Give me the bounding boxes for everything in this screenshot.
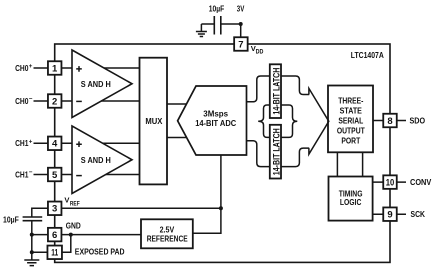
svg-text:CH0: CH0	[15, 63, 29, 73]
svg-text:3: 3	[52, 204, 57, 215]
svg-text:SDO: SDO	[410, 115, 426, 125]
svg-text:1: 1	[52, 63, 58, 74]
svg-text:STATE: STATE	[340, 106, 363, 116]
svg-text:8: 8	[387, 116, 392, 127]
svg-text:EXPOSED PAD: EXPOSED PAD	[75, 247, 125, 257]
svg-text:S AND H: S AND H	[81, 79, 111, 89]
svg-text:+: +	[29, 138, 33, 145]
svg-text:2: 2	[52, 96, 57, 107]
svg-text:CONV: CONV	[410, 177, 432, 187]
svg-text:10: 10	[386, 178, 395, 189]
svg-text:DD: DD	[256, 50, 264, 56]
svg-text:+: +	[29, 63, 33, 70]
svg-text:9: 9	[387, 210, 392, 221]
svg-text:CH1: CH1	[15, 169, 29, 179]
svg-text:6: 6	[52, 230, 57, 241]
svg-text:THREE-: THREE-	[338, 96, 363, 106]
svg-text:GND: GND	[66, 220, 81, 230]
svg-text:PORT: PORT	[341, 136, 361, 146]
svg-text:11: 11	[51, 248, 58, 259]
svg-text:CH1: CH1	[15, 138, 29, 148]
svg-text:REF: REF	[70, 201, 80, 207]
svg-text:10µF: 10µF	[209, 3, 225, 13]
svg-text:CH0: CH0	[15, 96, 29, 106]
svg-text:LOGIC: LOGIC	[340, 197, 362, 207]
svg-text:SERIAL: SERIAL	[338, 116, 363, 126]
svg-text:3V: 3V	[237, 3, 245, 13]
svg-text:14-BIT LATCH: 14-BIT LATCH	[271, 128, 281, 175]
svg-text:REFERENCE: REFERENCE	[147, 233, 188, 243]
svg-text:14-BIT LATCH: 14-BIT LATCH	[271, 68, 281, 115]
svg-text:5: 5	[52, 170, 58, 181]
svg-text:−: −	[29, 96, 33, 103]
svg-text:4: 4	[52, 139, 58, 150]
svg-text:3Msps: 3Msps	[203, 108, 228, 118]
svg-text:LTC1407A: LTC1407A	[351, 50, 384, 60]
svg-text:−: −	[29, 169, 33, 176]
svg-text:MUX: MUX	[145, 116, 162, 126]
svg-text:SCK: SCK	[411, 209, 426, 219]
svg-text:OUTPUT: OUTPUT	[337, 126, 366, 136]
svg-text:7: 7	[238, 39, 243, 50]
svg-text:S AND H: S AND H	[81, 155, 111, 165]
svg-text:10µF: 10µF	[3, 214, 19, 224]
svg-text:14-BIT ADC: 14-BIT ADC	[195, 118, 236, 128]
